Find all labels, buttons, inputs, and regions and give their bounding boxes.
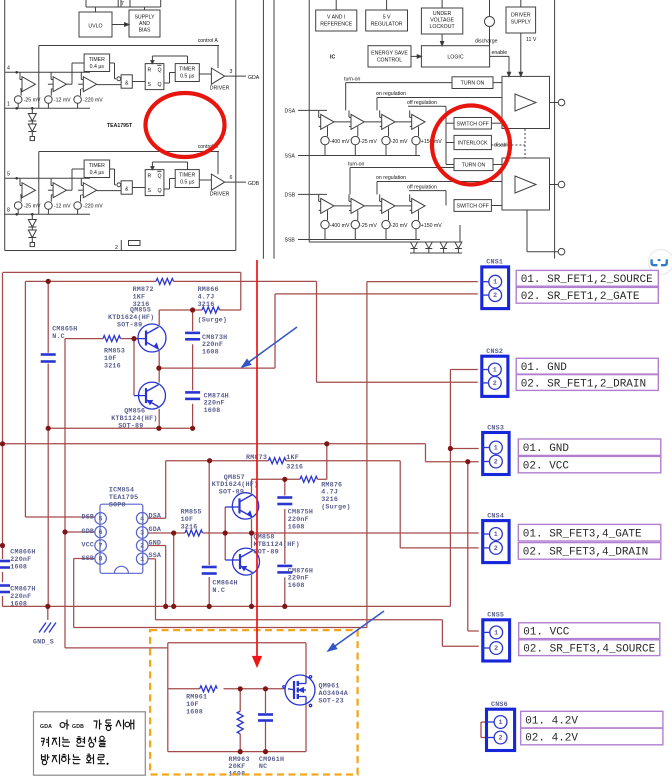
svg-text:SOT-89: SOT-89 <box>118 422 143 430</box>
svg-text:turn-on: turn-on <box>348 162 365 168</box>
svg-text:TURN ON: TURN ON <box>462 163 486 169</box>
svg-text:2: 2 <box>140 543 144 551</box>
svg-text:SUPPLY: SUPPLY <box>511 20 532 26</box>
svg-text:02. SR_FET1,2_DRAIN: 02. SR_FET1,2_DRAIN <box>521 378 646 390</box>
svg-text:4: 4 <box>140 516 144 524</box>
svg-text:ENERGY SAVE: ENERGY SAVE <box>371 51 408 57</box>
svg-text:TIMER: TIMER <box>89 163 105 169</box>
svg-text:Q: Q <box>158 68 162 74</box>
svg-text:DSB: DSB <box>82 514 95 522</box>
svg-text:11 V: 11 V <box>526 37 537 43</box>
svg-text:SWITCH OFF: SWITCH OFF <box>457 121 489 127</box>
svg-text:(Surge): (Surge) <box>198 317 228 325</box>
svg-text:SSA: SSA <box>285 154 296 160</box>
svg-text:SSB: SSB <box>82 555 95 563</box>
svg-text:1: 1 <box>493 279 497 287</box>
svg-text:GDA: GDA <box>149 526 162 534</box>
svg-text:S: S <box>148 82 152 88</box>
svg-text:7: 7 <box>98 543 102 551</box>
svg-text:SUPPLY: SUPPLY <box>134 15 155 21</box>
svg-text:1608: 1608 <box>10 600 27 608</box>
svg-text:GDB: GDB <box>72 724 84 730</box>
svg-text:02. VCC: 02. VCC <box>523 460 570 472</box>
svg-text:1: 1 <box>493 367 497 375</box>
svg-text:V AND I: V AND I <box>327 15 345 21</box>
svg-text:3216: 3216 <box>181 524 198 532</box>
svg-text:DSA: DSA <box>285 108 296 114</box>
svg-text:01. VCC: 01. VCC <box>523 627 570 639</box>
svg-text:TIMER: TIMER <box>89 57 105 63</box>
svg-text:-20 mV: -20 mV <box>391 223 408 229</box>
svg-text:UNDER: UNDER <box>433 11 452 17</box>
svg-text:SOP8: SOP8 <box>109 501 126 509</box>
svg-text:1608: 1608 <box>186 708 203 716</box>
svg-text:DSB: DSB <box>285 192 296 198</box>
svg-text:DRIVER: DRIVER <box>511 13 531 19</box>
svg-text:TIMER: TIMER <box>179 173 195 179</box>
svg-text:1: 1 <box>494 629 498 637</box>
svg-text:5: 5 <box>98 516 102 524</box>
svg-text:-25 mV: -25 mV <box>360 223 377 229</box>
svg-text:GDB: GDB <box>82 528 95 536</box>
svg-text:02. 4.2V: 02. 4.2V <box>525 732 578 744</box>
svg-text:TIMER: TIMER <box>179 67 195 73</box>
svg-text:1: 1 <box>494 531 498 539</box>
svg-text:LOCKOUT: LOCKOUT <box>430 24 456 30</box>
svg-text:enable: enable <box>492 50 508 56</box>
svg-text:REFERENCE: REFERENCE <box>320 22 353 28</box>
svg-text:LOGIC: LOGIC <box>447 55 463 61</box>
svg-text:6: 6 <box>98 529 102 537</box>
svg-text:Q: Q <box>158 188 162 194</box>
svg-text:SWITCH OFF: SWITCH OFF <box>457 204 489 210</box>
svg-text:01. 4.2V: 01. 4.2V <box>525 715 578 727</box>
svg-text:8: 8 <box>7 208 10 214</box>
svg-text:5 V: 5 V <box>383 15 391 21</box>
svg-text:SOT-23: SOT-23 <box>319 697 344 705</box>
svg-text:3: 3 <box>140 530 144 538</box>
svg-text:0.4 µs: 0.4 µs <box>90 170 105 176</box>
svg-text:5: 5 <box>7 172 10 178</box>
svg-text:discharge: discharge <box>475 39 498 45</box>
svg-text:on regulation: on regulation <box>376 175 406 181</box>
svg-text:1608: 1608 <box>204 407 221 415</box>
svg-text:N.C: N.C <box>212 587 225 595</box>
svg-text:DRIVER: DRIVER <box>210 86 230 92</box>
svg-text:-25 mV: -25 mV <box>24 98 41 104</box>
svg-text:01. GND: 01. GND <box>521 362 568 374</box>
svg-text:DSA: DSA <box>149 512 162 520</box>
svg-text:SOT-89: SOT-89 <box>219 489 244 497</box>
svg-text:(Surge): (Surge) <box>321 504 351 512</box>
svg-text:2: 2 <box>494 545 498 553</box>
svg-text:6: 6 <box>230 175 233 181</box>
svg-text:0.5 µs: 0.5 µs <box>180 180 195 186</box>
svg-text:3: 3 <box>230 69 233 75</box>
svg-text:UVLO: UVLO <box>88 24 102 30</box>
svg-text:IC: IC <box>330 55 335 61</box>
svg-text:GND_S: GND_S <box>33 639 54 647</box>
svg-text:R: R <box>148 174 152 180</box>
svg-text:02. SR_FET1,2_GATE: 02. SR_FET1,2_GATE <box>521 291 640 303</box>
svg-text:1608: 1608 <box>202 349 219 357</box>
svg-text:GDA: GDA <box>40 724 52 730</box>
svg-text:S: S <box>148 188 152 194</box>
svg-text:01. GND: 01. GND <box>523 443 570 455</box>
svg-text:0.5 µs: 0.5 µs <box>180 74 195 80</box>
svg-text:INTERLOCK: INTERLOCK <box>458 141 488 147</box>
svg-text:SSA: SSA <box>149 552 162 560</box>
svg-text:2: 2 <box>498 735 502 743</box>
svg-text:-25 mV: -25 mV <box>360 139 377 145</box>
svg-text:GDA: GDA <box>248 75 260 81</box>
svg-text:1608: 1608 <box>288 582 305 590</box>
svg-text:R: R <box>148 68 152 74</box>
svg-text:2: 2 <box>494 645 498 653</box>
svg-text:control A: control A <box>198 38 219 44</box>
svg-text:SOT-89: SOT-89 <box>117 321 142 329</box>
svg-text:-220 mV: -220 mV <box>83 98 103 104</box>
svg-text:-12 mV: -12 mV <box>54 204 71 210</box>
svg-text:BIAS: BIAS <box>139 28 151 34</box>
svg-text:8: 8 <box>98 556 102 564</box>
svg-text:TEA1795T: TEA1795T <box>107 123 133 129</box>
svg-text:1608: 1608 <box>288 523 305 531</box>
svg-text:1: 1 <box>498 719 502 727</box>
svg-text:&: & <box>125 187 129 193</box>
svg-text:1608: 1608 <box>10 563 27 571</box>
svg-text:Q: Q <box>158 174 162 180</box>
svg-text:off regulation: off regulation <box>407 100 437 106</box>
svg-text:2: 2 <box>493 380 497 388</box>
svg-text:3216: 3216 <box>286 464 303 472</box>
svg-text:Q: Q <box>158 82 162 88</box>
svg-text:0.4 µs: 0.4 µs <box>90 64 105 70</box>
svg-text:CONTROL: CONTROL <box>377 58 402 64</box>
svg-text:2: 2 <box>494 459 498 467</box>
svg-text:1: 1 <box>7 102 10 108</box>
svg-text:01. SR_FET3,4_GATE: 01. SR_FET3,4_GATE <box>523 529 642 541</box>
svg-text:-400 mV: -400 mV <box>330 139 350 145</box>
svg-text:02. SR_FET3,4_DRAIN: 02. SR_FET3,4_DRAIN <box>523 547 648 559</box>
svg-text:AND: AND <box>139 21 150 27</box>
svg-text:REGULATOR: REGULATOR <box>371 22 403 28</box>
svg-text:N.C: N.C <box>52 333 65 341</box>
svg-text:7: 7 <box>121 1 124 7</box>
svg-text:GND: GND <box>149 539 162 547</box>
svg-text:1: 1 <box>494 445 498 453</box>
svg-text:GDB: GDB <box>248 181 260 187</box>
svg-text:-400 mV: -400 mV <box>330 223 350 229</box>
svg-text:DRIVER: DRIVER <box>210 192 230 198</box>
svg-text:TURN ON: TURN ON <box>461 81 485 87</box>
svg-text:+150 mV: +150 mV <box>421 223 442 229</box>
svg-text:on regulation: on regulation <box>376 91 406 97</box>
svg-text:-20 mV: -20 mV <box>391 139 408 145</box>
svg-text:SSB: SSB <box>285 238 296 244</box>
svg-text:-25 mV: -25 mV <box>24 204 41 210</box>
svg-text:&: & <box>125 81 129 87</box>
svg-text:1KF: 1KF <box>286 454 299 462</box>
svg-text:2: 2 <box>115 245 118 251</box>
svg-text:3216: 3216 <box>104 362 121 370</box>
svg-text:-220 mV: -220 mV <box>83 204 103 210</box>
svg-text:NC: NC <box>259 763 267 771</box>
svg-text:VCC: VCC <box>82 542 95 550</box>
svg-text:4: 4 <box>7 66 10 72</box>
svg-text:3216: 3216 <box>198 301 215 309</box>
svg-text:VOLTAGE: VOLTAGE <box>430 18 454 24</box>
svg-text:1: 1 <box>140 556 144 564</box>
svg-text:02. SR_FET3,4_SOURCE: 02. SR_FET3,4_SOURCE <box>523 644 655 656</box>
svg-text:off regulation: off regulation <box>407 185 437 191</box>
svg-text:2: 2 <box>493 292 497 300</box>
svg-text:turn-on: turn-on <box>344 77 361 83</box>
svg-text:01. SR_FET1,2_SOURCE: 01. SR_FET1,2_SOURCE <box>521 274 653 286</box>
svg-text:-12 mV: -12 mV <box>54 98 71 104</box>
